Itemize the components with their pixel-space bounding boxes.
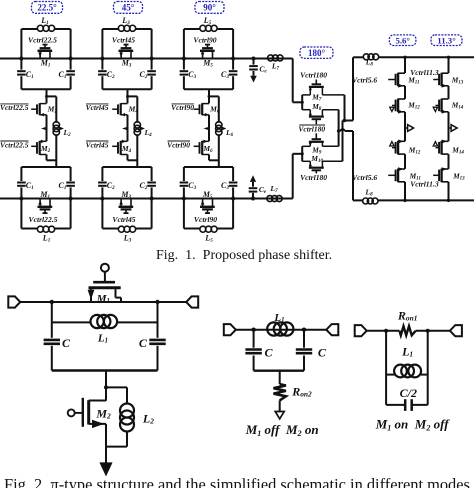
svg-text:Vctrl22.5: Vctrl22.5 <box>29 215 58 224</box>
svg-text:11.3°: 11.3° <box>437 35 456 45</box>
svg-text:Vctrl22.5: Vctrl22.5 <box>28 35 57 44</box>
svg-text:Vctrl11.3: Vctrl11.3 <box>410 68 439 77</box>
svg-text:Fig. 2. π-type structure and t: Fig. 2. π-type structure and the simplif… <box>4 475 470 488</box>
svg-text:Vctrl22.5: Vctrl22.5 <box>0 140 29 149</box>
svg-text:Vctrl45: Vctrl45 <box>112 35 135 44</box>
svg-text:Vctrl180: Vctrl180 <box>300 71 327 80</box>
svg-text:Fig. 1. Proposed phase shift: Fig. 1. Proposed phase shifter. <box>156 248 332 263</box>
svg-text:5.6°: 5.6° <box>395 35 410 45</box>
svg-text:Vctrl180: Vctrl180 <box>300 173 327 182</box>
svg-text:180°: 180° <box>308 48 326 58</box>
svg-text:Vctrl90: Vctrl90 <box>194 215 217 224</box>
svg-text:Vctrl5.6: Vctrl5.6 <box>352 173 377 182</box>
svg-text:C: C <box>139 336 148 350</box>
svg-text:Vctrl11.3: Vctrl11.3 <box>410 179 439 188</box>
svg-text:Vctrl90: Vctrl90 <box>193 35 216 44</box>
svg-text:Vctrl45: Vctrl45 <box>86 103 109 112</box>
svg-text:M1 off M2 on: M1 off M2 on <box>245 422 319 438</box>
svg-text:22.5°: 22.5° <box>37 3 57 13</box>
svg-text:Vctrl45: Vctrl45 <box>86 140 109 149</box>
svg-text:45°: 45° <box>122 3 135 13</box>
svg-text:C: C <box>318 346 327 360</box>
svg-text:Vctrl90: Vctrl90 <box>167 140 190 149</box>
svg-text:90°: 90° <box>203 3 216 13</box>
svg-text:M1 on M2 off: M1 on M2 off <box>375 417 451 433</box>
svg-text:Vctrl22.5: Vctrl22.5 <box>0 103 29 112</box>
svg-text:Vctrl5.6: Vctrl5.6 <box>352 76 377 85</box>
svg-text:Vctrl180: Vctrl180 <box>298 124 325 133</box>
svg-text:Vctrl45: Vctrl45 <box>112 215 135 224</box>
svg-text:C/2: C/2 <box>400 386 417 400</box>
svg-text:C: C <box>62 336 71 350</box>
svg-text:C: C <box>264 346 273 360</box>
svg-text:Vctrl90: Vctrl90 <box>171 103 194 112</box>
